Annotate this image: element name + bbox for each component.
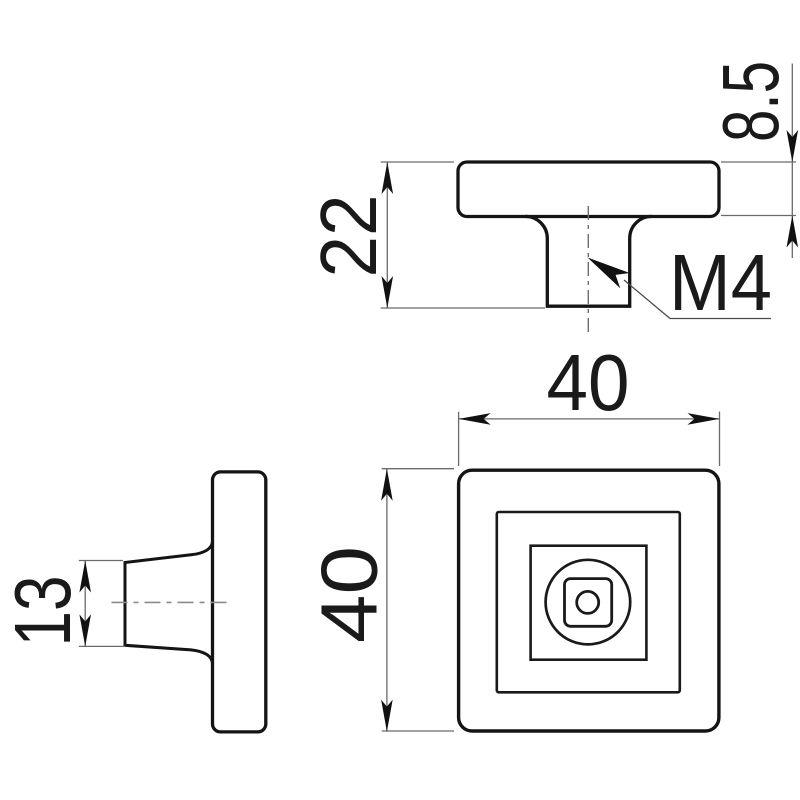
svg-text:8.5: 8.5 [706,61,795,142]
svg-text:13: 13 [0,576,87,647]
svg-text:M4: M4 [669,238,772,327]
svg-text:40: 40 [547,338,630,427]
svg-text:22: 22 [304,195,393,278]
svg-text:40: 40 [305,546,394,643]
